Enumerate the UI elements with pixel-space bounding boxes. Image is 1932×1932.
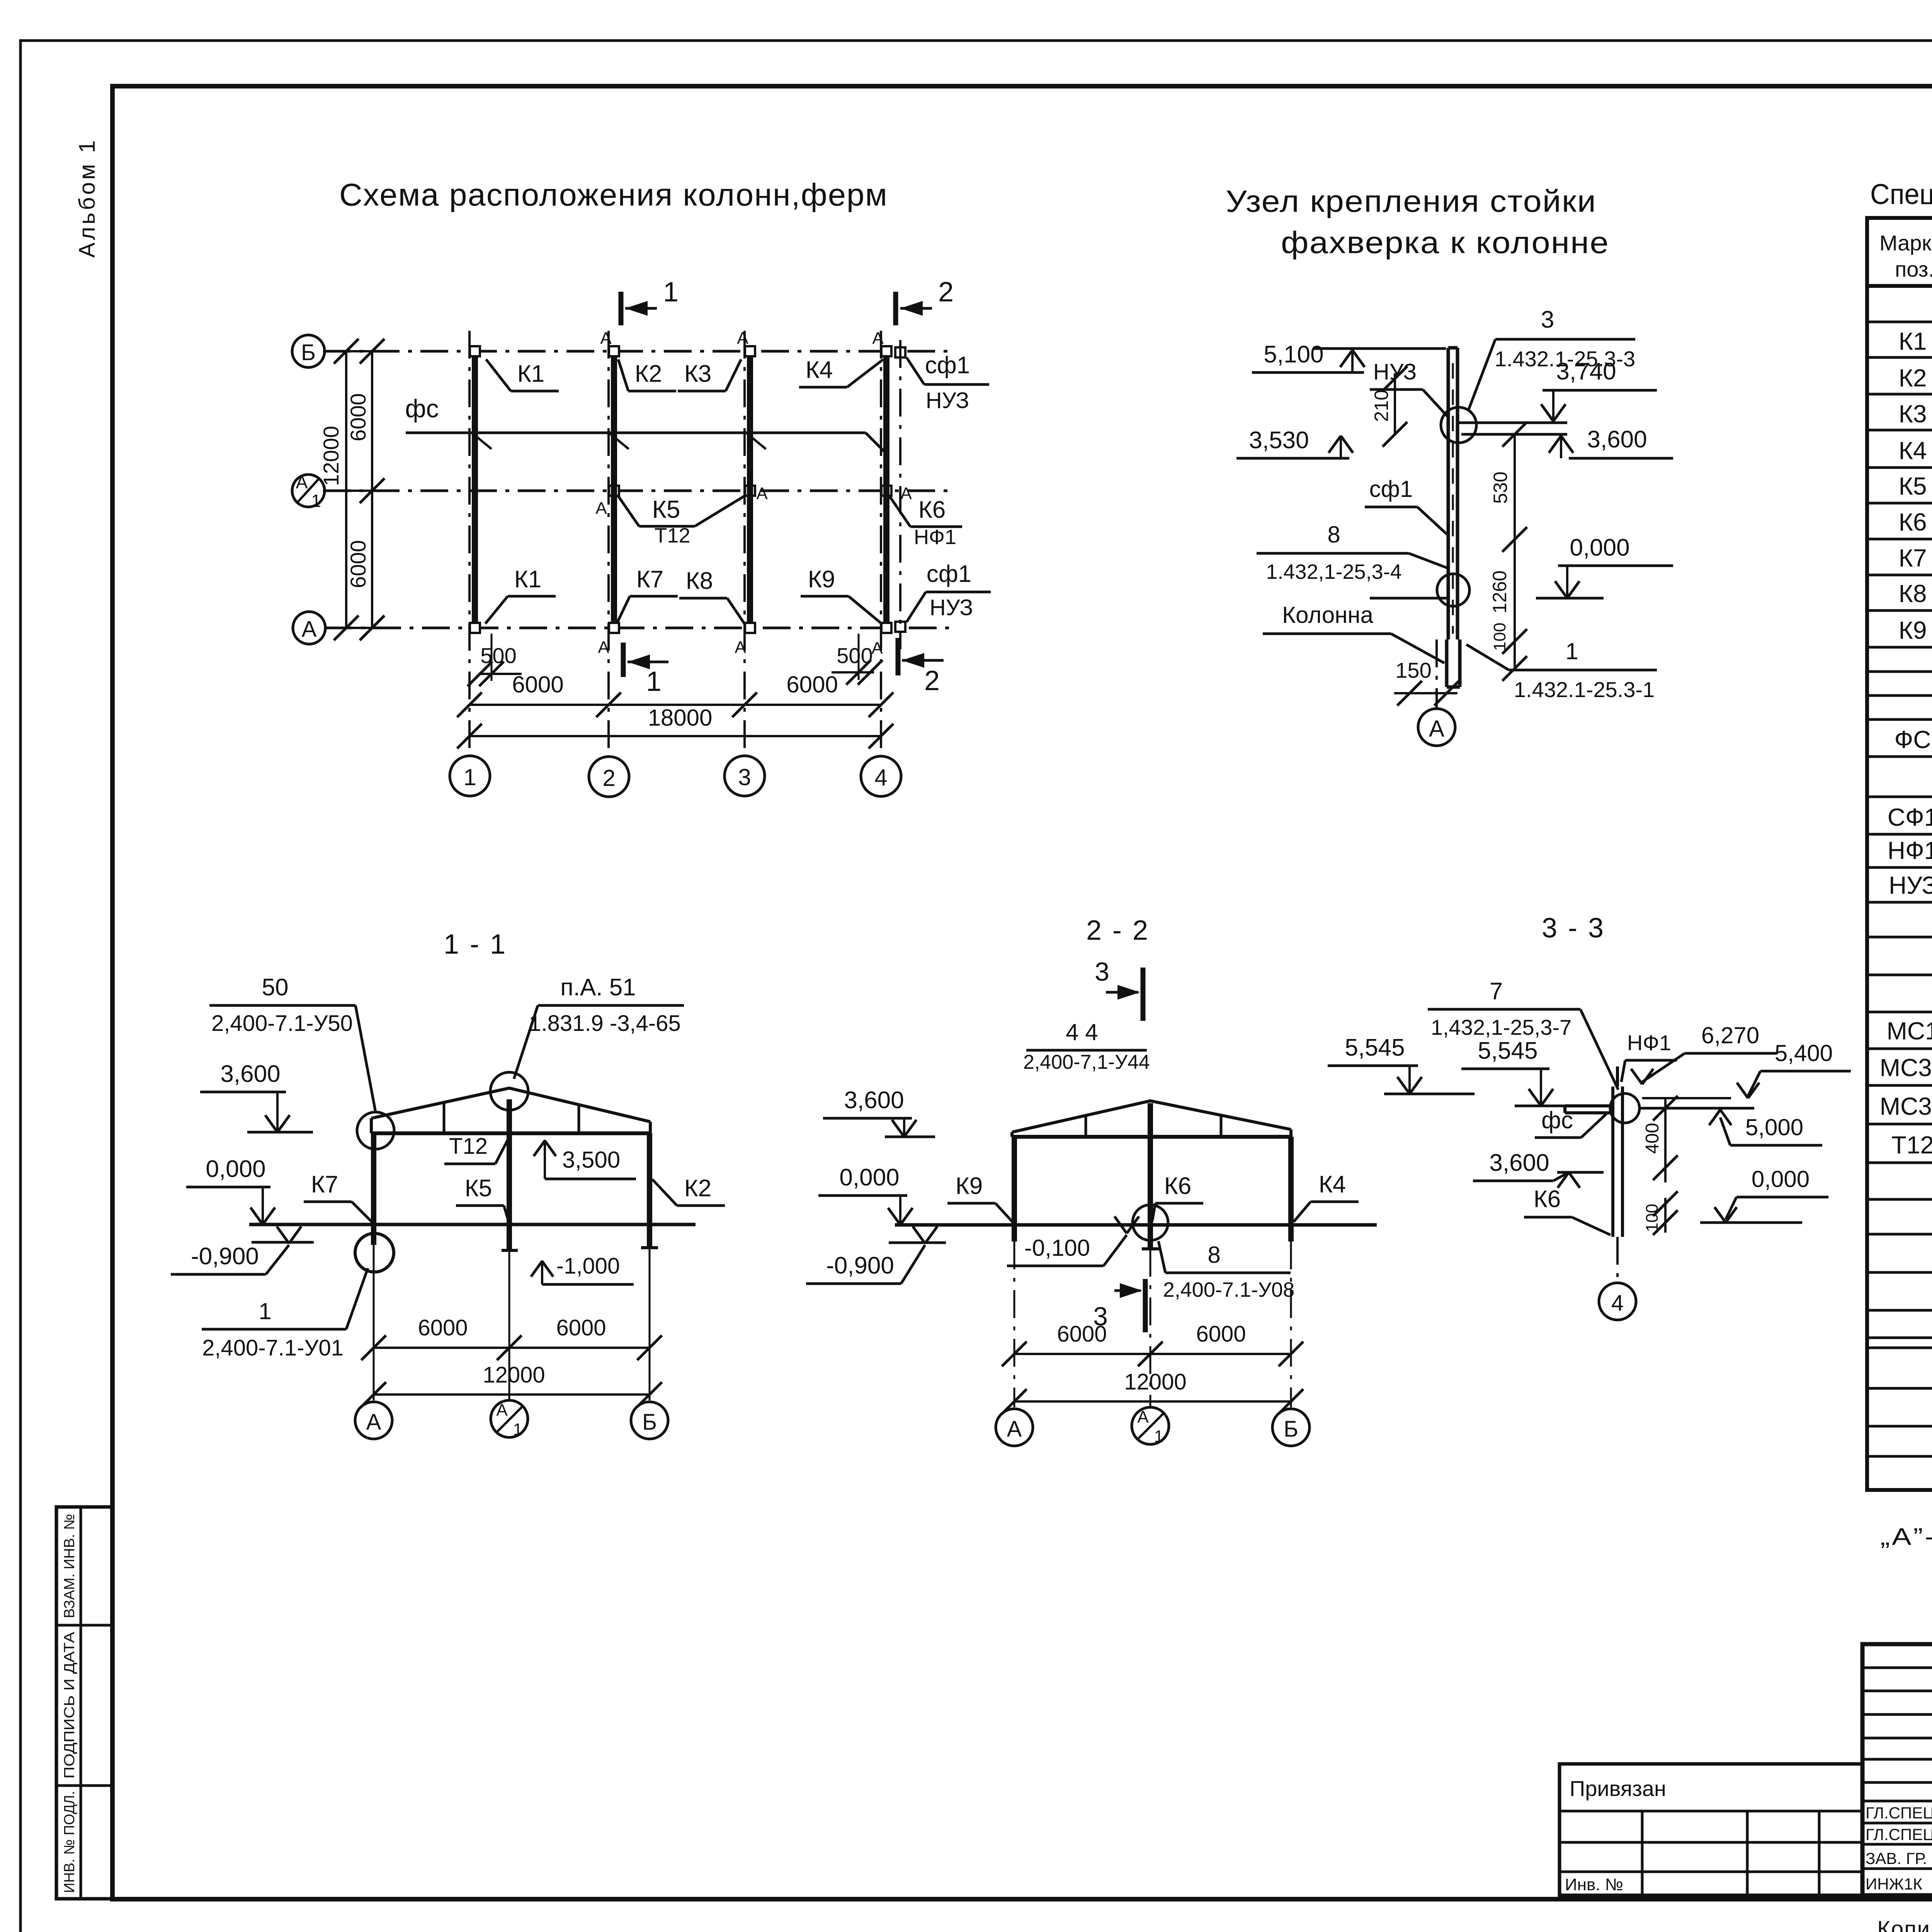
svg-text:К5: К5 [652,495,680,523]
svg-text:2: 2 [602,765,615,791]
beam line right 3-3 [1639,1107,1754,1110]
svg-text:12000: 12000 [319,426,343,486]
column bottom tee 2-2 [1142,1247,1159,1250]
dim 400 3-3 [1664,1098,1667,1182]
svg-text:3 - 3: 3 - 3 [1542,913,1605,944]
column K1 square row B [470,346,480,356]
level stub 3,600 1-1 [247,1131,313,1134]
section mark 2 top [893,292,898,325]
svg-text:ПОДПИСЬ И ДАТА: ПОДПИСЬ И ДАТА [61,1631,78,1779]
svg-text:12000: 12000 [1124,1369,1186,1395]
svg-text:НУЗ: НУЗ [926,388,969,413]
svg-text:6000: 6000 [1196,1321,1246,1347]
svg-text:8: 8 [1327,522,1340,548]
svg-text:К6: К6 [1899,508,1927,536]
column K4 square row B [881,346,891,356]
dim line 6000 bottom [469,704,881,706]
svg-text:-0,900: -0,900 [191,1243,259,1270]
column bar grid4 [883,356,889,623]
grid circle 2 [589,757,629,797]
apex node circle 1-1 [490,1072,528,1110]
svg-text:4: 4 [1611,1291,1624,1316]
column K1 square row A [470,623,480,633]
node circle 3-3 [1610,1094,1639,1123]
svg-text:6000: 6000 [512,672,563,697]
axis circle A 2-2 [996,1409,1033,1446]
svg-text:А: А [302,617,317,642]
column bar grid1 [472,356,478,623]
svg-text:К9: К9 [808,566,835,593]
section mark 1 top [619,292,624,325]
uzel axis to circle A [1435,639,1438,708]
column K6 bar 2-2 [1148,1103,1153,1249]
svg-text:6000: 6000 [786,672,838,697]
axis circle A1 1-1 [491,1400,528,1437]
svg-text:3,600: 3,600 [1587,426,1647,453]
svg-text:530: 530 [1490,471,1511,503]
svg-text:К6: К6 [1164,1173,1192,1199]
grid circle 4 [861,756,901,796]
svg-text:Т12: Т12 [654,524,690,547]
svg-text:6000: 6000 [1057,1321,1107,1347]
column K2 bar 1-1 [647,1133,652,1248]
grid line 3 [743,331,746,756]
svg-text:1: 1 [1154,1427,1163,1446]
beam FS 3-3 [1565,1104,1613,1107]
ground line 2-2 [895,1223,1377,1227]
svg-text:3,600: 3,600 [844,1087,904,1114]
column K7 square row A [609,623,619,633]
svg-text:2: 2 [924,665,940,696]
svg-text:1: 1 [646,666,662,697]
fachwerk post SF1 [1447,348,1450,639]
column K5 bar 1-1 [507,1099,512,1250]
svg-text:К4: К4 [1319,1171,1346,1198]
svg-text:К5: К5 [465,1175,492,1202]
svg-text:К7: К7 [311,1171,338,1198]
svg-text:2,400-7.1-У01: 2,400-7.1-У01 [202,1335,344,1361]
svg-text:НУЗ: НУЗ [1373,359,1417,384]
svg-text:-0,900: -0,900 [826,1252,894,1279]
dim 6000 6000 2-2 [1014,1353,1291,1355]
level line 5400 3-3 [1642,1097,1731,1099]
svg-text:МС33: МС33 [1880,1054,1932,1082]
grid circle 1 [450,756,490,796]
column K3 square row B [745,346,755,356]
svg-text:6000: 6000 [418,1315,468,1340]
svg-text:6000: 6000 [556,1315,606,1340]
svg-text:А: А [600,329,612,348]
section mark 3 top 2-2 [1141,968,1146,1021]
svg-text:К4: К4 [1899,437,1927,464]
svg-text:К2: К2 [635,361,662,387]
column K8 square row A [745,623,755,633]
svg-text:сф1: сф1 [925,352,970,379]
svg-text:А: А [871,639,883,658]
NF1 stub 3-3 [1616,1066,1619,1087]
left margin stack boxes [56,1507,112,1899]
svg-text:1.432.1-25.3-3: 1.432.1-25.3-3 [1495,347,1635,371]
svg-text:8: 8 [1207,1242,1220,1268]
svg-text:А: А [737,329,748,348]
svg-text:1: 1 [463,764,476,790]
axis circle B 2-2 [1272,1409,1310,1446]
axis line 3-3 [1616,1237,1619,1282]
truss 2-2 bottom chord [1012,1135,1291,1139]
svg-text:Т12: Т12 [1891,1131,1932,1159]
svg-text:ФС: ФС [1895,726,1931,753]
svg-text:К2: К2 [1899,364,1927,392]
title block left box privyazan [1560,1764,1862,1895]
level line left of lower node [1370,597,1450,600]
svg-text:сф1: сф1 [1369,476,1413,502]
svg-text:К5: К5 [1899,472,1927,500]
svg-text:0,000: 0,000 [1752,1166,1810,1192]
svg-text:ВЗАМ. ИНВ. №: ВЗАМ. ИНВ. № [61,1514,78,1618]
axis line A1 [323,490,951,492]
svg-text:Б: Б [301,340,316,365]
upper node circle [1441,407,1476,443]
axis circle B 1-1 [631,1402,668,1439]
svg-text:фс: фс [1541,1107,1573,1134]
svg-text:А: А [1429,716,1444,742]
svg-text:А: А [735,638,746,657]
axis circle A [293,612,325,644]
column K5 square row A1 grid2 [609,486,619,496]
svg-text:0,000: 0,000 [839,1164,899,1191]
svg-text:2 - 2: 2 - 2 [1086,915,1150,946]
fachwerk axis line right [899,340,901,649]
svg-text:А: А [756,484,768,503]
dim 210 vertical [1394,373,1396,434]
level stub 0,000 uzel [1536,597,1604,600]
svg-text:К2: К2 [684,1175,712,1202]
svg-text:5,000: 5,000 [1745,1114,1803,1140]
truss 1-1 bottom chord [371,1131,651,1135]
left dim extension lines [325,350,386,352]
grid line 2 [607,331,610,756]
truss 2-2 top chord [1012,1101,1291,1132]
svg-text:поз.: поз. [1895,257,1932,281]
section mark 1 bottom [621,643,626,677]
fachwerk SF1 square bottom right [895,622,905,632]
left dim line 6000+6000 [371,351,373,628]
svg-text:5,100: 5,100 [1264,341,1323,368]
svg-text:3: 3 [738,764,751,790]
svg-text:МС1: МС1 [1886,1017,1932,1045]
svg-text:ГЛ.СПЕЦ.: ГЛ.СПЕЦ. [1866,1825,1932,1844]
svg-text:6,270: 6,270 [1701,1022,1759,1048]
svg-text:5,545: 5,545 [1478,1037,1537,1064]
svg-text:К1: К1 [1899,327,1927,355]
svg-text:Схема расположения колонн,ферм: Схема расположения колонн,ферм [339,177,888,213]
level line -0,900 1-1 [252,1241,314,1244]
level line 5545 2-2 [1384,1093,1475,1095]
axis circle B [292,335,325,367]
elevation -1,000 1-1 [541,1260,543,1284]
svg-text:ГЛ.СПЕЦ.: ГЛ.СПЕЦ. [1866,1804,1932,1822]
svg-text:Альбом 1: Альбом 1 [75,138,100,258]
axis line B [323,350,951,353]
column head below uzel [1445,639,1449,687]
svg-text:Узел крепления стойки: Узел крепления стойки [1226,184,1597,218]
grid line 1 [468,331,471,756]
spec table header line [1867,284,1932,288]
svg-text:Спецификация элементов к схема: Спецификация элементов к схемам располож… [1870,178,1932,210]
svg-text:4 4: 4 4 [1066,1019,1098,1045]
svg-text:500: 500 [480,643,516,668]
svg-text:п.А. 51: п.А. 51 [560,974,636,1001]
svg-text:Привязан: Привязан [1570,1776,1666,1801]
title block outline [1862,1644,1932,1895]
svg-text:1: 1 [311,491,321,511]
truss line top bay [406,432,866,434]
axis circle 4 3-3 [1599,1283,1636,1320]
level line 0000 3-3 [1700,1221,1802,1224]
uzel axis circle A [1418,709,1455,746]
column K9 square row A [881,623,891,633]
svg-text:1: 1 [1565,638,1578,664]
svg-text:А: А [366,1410,381,1435]
ground line 1-1 [249,1223,696,1226]
svg-text:К8: К8 [686,568,713,594]
extension lines 2-2 [1014,1242,1015,1407]
truss 2-2 struts [1010,1132,1014,1137]
svg-text:НФ1: НФ1 [914,526,956,549]
extension lines 1-1 [373,1245,375,1400]
column bar grid3 [747,356,753,623]
spec table merged cell lines [1867,1162,1932,1164]
svg-text:210: 210 [1371,389,1392,422]
svg-text:сф1: сф1 [927,561,972,587]
level stub 5,545 3-3 [1515,1105,1565,1107]
column K9 bar 2-2 [1012,1137,1017,1242]
truss 1-1 end posts and struts [370,1118,373,1133]
svg-text:6000: 6000 [346,540,370,588]
svg-text:1.432.1-25.3-1: 1.432.1-25.3-1 [1514,677,1655,702]
svg-text:1,432,1-25,3-7: 1,432,1-25,3-7 [1431,1015,1571,1039]
dim 530 1260 100 vertical [1514,434,1516,668]
svg-text:1: 1 [663,277,679,308]
column bar grid2 [611,356,617,623]
svg-text:К9: К9 [1899,616,1927,644]
grid line 4 [880,331,882,756]
dim 100 3-3 [1664,1198,1667,1233]
svg-text:Т12: Т12 [449,1134,488,1159]
svg-text:3: 3 [1095,957,1109,986]
svg-text:-1,000: -1,000 [556,1253,620,1279]
svg-text:К7: К7 [1899,544,1927,572]
post K6 3-3 [1611,1087,1614,1237]
svg-text:Инв. №: Инв. № [1565,1875,1623,1894]
column K7 bar 1-1 [371,1133,376,1245]
svg-text:6000: 6000 [346,393,370,442]
column K2 square row B [609,346,619,356]
level line 3600 2-2 [885,1136,935,1138]
svg-text:0,000: 0,000 [206,1156,265,1182]
svg-text:А: А [900,484,912,503]
svg-text:К3: К3 [684,361,712,387]
lower node circle [1437,574,1469,606]
svg-text:4: 4 [874,765,887,791]
truss 1-1 top chord [371,1088,650,1122]
svg-text:„А”- знак ориентации колонн: „А”- знак ориентации колонн [1880,1524,1932,1550]
svg-text:150: 150 [1395,658,1431,682]
svg-text:К6: К6 [1534,1186,1561,1213]
beam lines right of upper node [1459,422,1567,424]
svg-text:НУЗ: НУЗ [1889,871,1932,899]
svg-text:ИНЖ1К: ИНЖ1К [1866,1875,1923,1893]
svg-text:7: 7 [1490,978,1503,1005]
svg-text:2,400-7.1-У08: 2,400-7.1-У08 [1163,1278,1295,1301]
svg-text:фахверка к колонне: фахверка к колонне [1281,225,1609,260]
svg-text:0,000: 0,000 [1570,534,1629,561]
svg-text:Марка,: Марка, [1879,231,1932,255]
lower left node circle 1-1 [355,1233,394,1272]
section mark 2 bottom [896,638,901,675]
axis circle A1 2-2 [1132,1407,1169,1444]
section mark 3 bottom 2-2 [1143,1279,1148,1332]
svg-text:Колонна: Колонна [1282,602,1373,628]
svg-text:К7: К7 [636,566,664,593]
svg-text:3,500: 3,500 [562,1147,620,1173]
svg-text:Б: Б [1284,1417,1298,1442]
svg-text:ИНВ. № ПОДЛ.: ИНВ. № ПОДЛ. [61,1791,78,1893]
svg-text:3,600: 3,600 [220,1061,280,1087]
svg-text:Б: Б [642,1410,657,1435]
svg-text:А: А [496,1401,508,1420]
svg-text:2,400-7.1-У50: 2,400-7.1-У50 [211,1011,353,1036]
node circle mid 2-2 [1133,1205,1168,1240]
level line -0900 2-2 [889,1242,946,1244]
left dim line 12000 [345,351,347,628]
svg-text:НУЗ: НУЗ [930,595,973,620]
svg-text:А: А [595,499,607,518]
svg-text:5,400: 5,400 [1775,1040,1833,1066]
svg-text:12000: 12000 [483,1362,545,1388]
title block central row lines [1862,1667,1932,1669]
svg-text:1.831.9 -3,4-65: 1.831.9 -3,4-65 [529,1011,680,1036]
spec table outer [1867,218,1932,1490]
svg-text:К4: К4 [806,357,833,383]
svg-text:НФ1: НФ1 [1888,837,1932,864]
elevation 3,500 1-1 [544,1140,546,1179]
grid circle 3 [724,756,765,796]
column K5 square row A1 grid3 [745,486,755,496]
svg-text:3: 3 [1541,306,1554,333]
svg-text:СФ1: СФ1 [1888,803,1932,831]
dim 12000 2-2 [1014,1400,1291,1403]
svg-text:К9: К9 [956,1173,983,1199]
svg-text:1 - 1: 1 - 1 [444,929,507,960]
svg-text:К1: К1 [517,361,545,387]
dim 6000 6000 1-1 [374,1347,650,1349]
svg-text:К1: К1 [514,566,542,593]
svg-text:А: А [1007,1417,1022,1442]
top level line 5100 [1314,347,1446,350]
svg-text:5,545: 5,545 [1345,1034,1405,1061]
axis circle A1 [292,474,325,507]
svg-text:фс: фс [405,394,439,423]
svg-text:1260: 1260 [1489,570,1510,613]
svg-text:18000: 18000 [648,705,713,731]
axis circle A 1-1 [355,1402,392,1439]
svg-text:К3: К3 [1899,400,1927,428]
svg-text:400: 400 [1642,1123,1663,1154]
dim 12000 1-1 [374,1393,650,1396]
fachwerk SF1 square top right [895,347,905,357]
svg-text:ЗАВ. ГР.: ЗАВ. ГР. [1866,1849,1927,1867]
svg-text:50: 50 [262,974,289,1001]
axis line A [325,627,951,629]
svg-text:А: А [1137,1408,1149,1427]
svg-text:1: 1 [259,1298,271,1324]
svg-text:3,530: 3,530 [1249,427,1309,454]
svg-text:А: А [598,638,609,657]
level stub 3,600 3-3 [1557,1171,1604,1174]
svg-text:2,400-7,1-У44: 2,400-7,1-У44 [1023,1051,1150,1073]
svg-text:2: 2 [938,277,954,308]
svg-text:А: А [872,329,884,348]
column K4 bar 2-2 [1288,1137,1294,1242]
svg-text:А: А [296,472,308,492]
spec table row lines [1867,321,1932,323]
svg-text:К6: К6 [918,497,946,523]
svg-text:НФ1: НФ1 [1627,1031,1671,1055]
svg-text:3,600: 3,600 [1489,1150,1549,1176]
svg-text:К8: К8 [1899,580,1927,607]
svg-text:100: 100 [1490,622,1509,651]
column bottom tee marks 1-1 [502,1249,518,1252]
svg-text:100: 100 [1643,1204,1662,1232]
eave node circle 1-1 [357,1112,394,1149]
column K6 square row A1 grid4 [881,486,891,496]
svg-text:-0,100: -0,100 [1024,1235,1090,1261]
svg-text:1: 1 [513,1420,522,1439]
svg-text:1.432,1-25,3-4: 1.432,1-25,3-4 [1266,560,1401,583]
dim line 18000 bottom [469,735,881,737]
svg-text:МС34: МС34 [1880,1092,1932,1120]
svg-text:Копировал Завьялова: Копировал Завьялова [1877,1917,1932,1932]
